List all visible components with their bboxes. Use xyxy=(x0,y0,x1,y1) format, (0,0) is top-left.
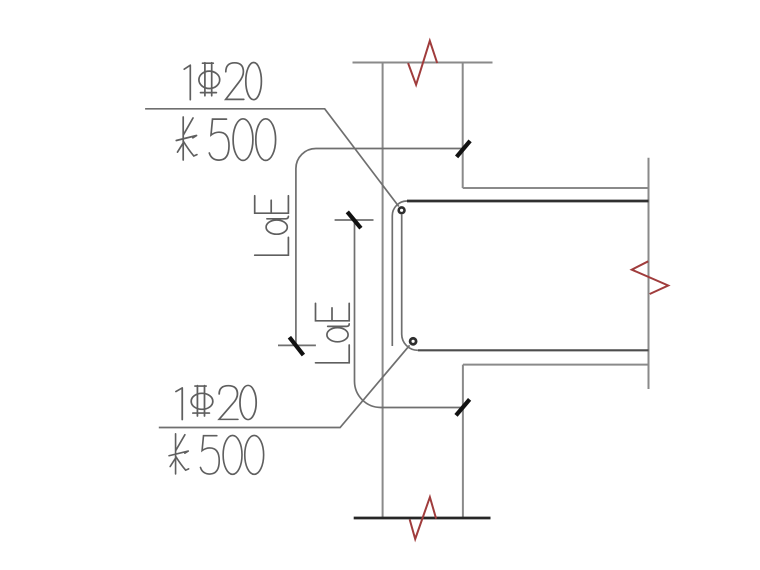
column top break cap line xyxy=(353,62,493,64)
leader line bottom label xyxy=(159,345,410,427)
leader line top label xyxy=(145,109,399,207)
label text 1phi20 bottom xyxy=(176,385,256,419)
dimension LaE lower cross line at top end xyxy=(335,219,374,221)
top rebar bend-down hook xyxy=(392,201,407,346)
column left edge line xyxy=(382,63,384,518)
red break zigzag top xyxy=(408,41,437,85)
bottom rebar bend-up hook xyxy=(402,215,418,351)
column bottom cap line (thick) xyxy=(354,517,491,520)
label text chang500 bottom xyxy=(169,434,264,475)
red break zigzag right xyxy=(632,261,668,294)
dimension tick upper-bottom xyxy=(289,337,303,355)
column right edge line upper segment xyxy=(462,63,464,189)
dimension tick lower-top xyxy=(347,212,361,228)
bar end circle top xyxy=(399,207,405,213)
dimension LaE lower bent line xyxy=(355,220,463,408)
beam bottom face line xyxy=(463,364,649,366)
column right edge line lower segment xyxy=(462,365,464,518)
label text 1phi20 top xyxy=(184,63,261,100)
label text chang500 top xyxy=(176,117,275,160)
dimension text LaE upper xyxy=(255,196,289,256)
red break zigzag bottom xyxy=(410,497,436,539)
dimension tick lower-right xyxy=(456,399,470,415)
dimension tick upper-right xyxy=(457,141,471,157)
dimension LaE upper bent line xyxy=(296,149,463,346)
dimension text LaE lower xyxy=(316,303,350,363)
beam end break line xyxy=(648,158,650,389)
bar end circle bottom xyxy=(410,338,416,344)
dimension LaE upper cross line at bottom end xyxy=(278,344,316,346)
beam top face line xyxy=(463,187,649,189)
bottom rebar horizontal xyxy=(418,349,649,351)
top rebar horizontal (thick) xyxy=(407,200,649,203)
